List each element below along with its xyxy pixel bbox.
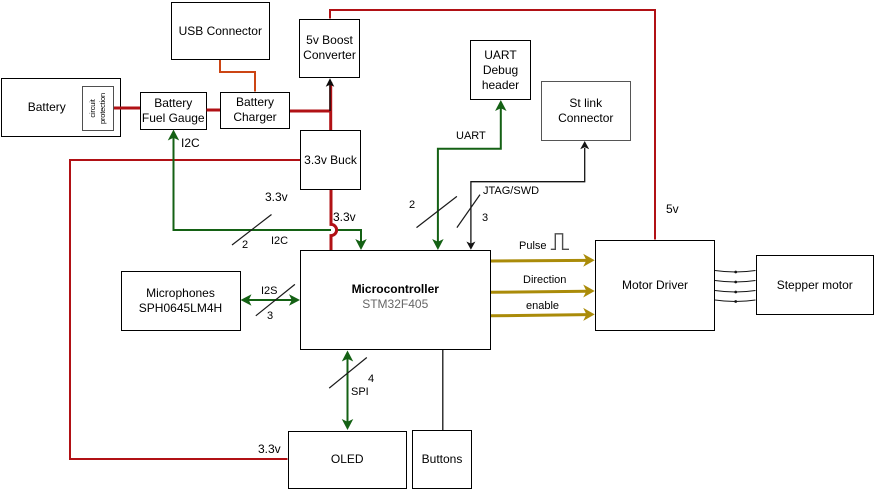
wire battery to fuel gauge (red power)	[114, 107, 140, 110]
block St link Connector	[541, 81, 632, 141]
label 3 (JTAG bus width)	[482, 212, 488, 224]
wire motor driver to stepper motor line 1	[715, 271, 756, 274]
bus slash I2C 2	[232, 215, 272, 246]
label 2 (I2C bus width)	[242, 239, 248, 251]
block Battery Charger	[220, 92, 290, 130]
wire buttons to microcontroller (gray)	[442, 350, 444, 430]
wire charger to junction (red power)	[290, 110, 332, 113]
block Microphones SPH0645LM4H	[121, 271, 241, 332]
block 5v Boost Converter	[299, 19, 360, 79]
label JTAG/SWD	[483, 185, 539, 197]
label 3.3v (OLED supply)	[258, 443, 281, 455]
wire UART: microcontroller to UART debug header (green, both arrows)	[432, 100, 506, 250]
wire motor driver to stepper motor line 2	[715, 281, 756, 284]
block 3.3v Buck	[300, 130, 361, 190]
block Microcontroller U1	[300, 250, 491, 350]
wire motor driver to stepper motor line 4	[715, 300, 756, 303]
block OLED	[288, 431, 408, 490]
label 3.3v (buck output)	[333, 211, 356, 223]
block Motor Driver	[595, 240, 715, 331]
label Pulse	[519, 240, 547, 252]
wire enable: microcontroller to motor driver (yellow arrow)	[491, 308, 595, 321]
bus slash I2S 3	[256, 284, 295, 315]
wire 5v rail: boost top, across top, down to motor driver	[330, 10, 655, 240]
wire JTAG/SWD: microcontroller to St link connector (gray, both arrows)	[466, 141, 589, 250]
block Stepper motor	[756, 255, 875, 315]
bus slash JTAG 3	[457, 195, 480, 228]
label UART	[456, 130, 486, 142]
bus slash SPI 4	[329, 358, 367, 389]
bus slash UART 2	[417, 196, 457, 227]
label SPI	[351, 386, 369, 398]
label enable	[526, 300, 559, 312]
label I2C (bus)	[271, 235, 288, 247]
wire junction up to 5v boost converter (black arrow)	[326, 78, 335, 130]
block UART Debug header	[470, 40, 531, 100]
wire buck bottom to microcontroller (3.3v, with hop over green)	[331, 224, 337, 235]
wire I2C: fuel gauge to microcontroller (green)	[168, 130, 367, 251]
wire Direction: microcontroller to motor driver (yellow arrow)	[491, 285, 595, 298]
block protection circuit (inside battery)	[82, 86, 115, 131]
label 5v (rail)	[666, 203, 679, 215]
label Direction	[523, 274, 566, 286]
pulse waveform glyph	[551, 234, 569, 250]
label 4 (SPI bus width)	[368, 373, 374, 385]
wire motor driver to stepper motor line 3	[715, 291, 756, 294]
label I2S	[261, 285, 278, 297]
wire 3.3v loop: buck left, down left side, to OLED	[70, 160, 300, 459]
block Battery	[1, 78, 121, 137]
block Battery Fuel Gauge	[140, 92, 207, 130]
wire I2S: microphones to microcontroller (green double arrow)	[241, 294, 301, 306]
wire USB connector to battery charger (orange)	[220, 60, 255, 92]
block USB Connector	[171, 2, 271, 60]
label 3 (I2S bus width)	[267, 310, 273, 322]
block Buttons	[412, 430, 472, 489]
label 3.3v (green rail)	[265, 191, 288, 203]
wire SPI: microcontroller to OLED (green double arrow)	[342, 351, 354, 431]
wire fuel gauge to charger (red power)	[207, 109, 221, 112]
label 2 (UART bus width)	[409, 199, 415, 211]
wire Pulse: microcontroller to motor driver (yellow arrow)	[491, 254, 595, 267]
label I2C (fuel gauge)	[181, 137, 200, 149]
